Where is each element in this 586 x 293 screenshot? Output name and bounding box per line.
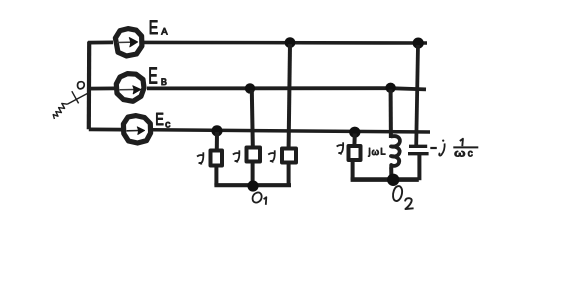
label r of R1: [197, 152, 203, 164]
wire: R3 bottom stem: [287, 164, 291, 186]
svg-text:L: L: [380, 147, 385, 158]
capacitor C1 bottom plate: [408, 152, 429, 155]
wire: R1 bottom stem: [214, 167, 218, 186]
wire: inductor stem from phase B down: [389, 90, 393, 139]
svg-text:c: c: [468, 148, 473, 159]
wire: phase A main line: [144, 41, 428, 45]
wire: R2 stem from phase B down: [252, 90, 253, 146]
label r of R2: [233, 150, 240, 162]
wire: capacitor bottom stem: [417, 154, 421, 181]
junction dot node O1: [247, 180, 258, 191]
svg-text:B: B: [161, 77, 167, 87]
node O label: [78, 82, 85, 89]
label r of R4: [337, 142, 344, 154]
label -j 1/wC : numerator 1: [460, 139, 463, 146]
resistor R1: [211, 151, 223, 166]
capacitor C1 top plate: [409, 145, 427, 148]
label -j 1/wC : j: [442, 140, 444, 142]
wire: capacitor stem from phase A down: [416, 45, 418, 146]
wire: phase C main line: [153, 130, 431, 132]
wire: R4 bottom stem: [351, 161, 355, 180]
svg-text:ω: ω: [372, 147, 380, 158]
arrow inside EB: [120, 89, 136, 91]
wire: bus corner to source EC: [89, 127, 122, 131]
wire: phase A left segment (bus to source EA): [88, 41, 113, 45]
source EB circle: [116, 74, 144, 102]
junction dot phase A / capacitor stem: [413, 38, 424, 49]
svg-text:E: E: [155, 110, 164, 130]
svg-text:E: E: [149, 17, 159, 38]
resistor R4: [349, 146, 361, 160]
wire: phase B left segment (bus to source EB): [88, 87, 115, 91]
svg-text:j: j: [368, 147, 371, 158]
arrow inside EA: [117, 41, 132, 43]
junction dot phase A / R3 stem: [285, 37, 296, 48]
resistor R3: [282, 149, 296, 163]
wire: left neutral bus (vertical): [87, 42, 92, 130]
source EC circle: [123, 116, 150, 143]
junction dot node O2: [387, 174, 399, 186]
wire: R1 top stem: [215, 132, 219, 150]
junction dot phase C / R1 stem: [211, 125, 222, 136]
svg-text:A: A: [161, 27, 168, 38]
wire: R4 top stem: [352, 134, 356, 146]
wire: right group bottom wire: [351, 177, 419, 182]
arrow inside EC: [127, 130, 140, 132]
label O2: [393, 186, 402, 201]
resistor R2: [247, 148, 261, 162]
junction dot phase B / inductor stem: [385, 83, 395, 93]
wire: left group bottom wire: [214, 183, 291, 187]
source EA circle: [115, 29, 141, 56]
wire: phase B main line: [147, 88, 426, 89]
inductor L1 coil: [391, 136, 400, 168]
label O1: [253, 192, 262, 202]
label -j 1/wC : fraction bar: [453, 146, 478, 148]
wire: inductor bottom stem: [389, 168, 393, 181]
pointer squiggle arrow to node O: [53, 91, 88, 119]
wire: R2 bottom stem: [251, 163, 255, 186]
junction dot phase C / R4 stem: [349, 127, 360, 138]
label r of R3: [268, 150, 275, 162]
svg-text:ω: ω: [454, 147, 465, 159]
svg-text:E: E: [148, 64, 158, 89]
junction dot phase B / R2 stem: [245, 83, 255, 93]
label -j 1/wC : minus sign: [430, 147, 437, 149]
wire: R3 stem from phase A down: [289, 44, 290, 147]
